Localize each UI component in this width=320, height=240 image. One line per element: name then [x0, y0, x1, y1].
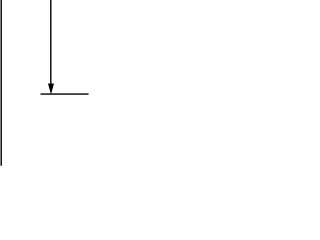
wire W2 (center vertical arrow shaft) [50, 0, 52, 86]
arrowhead (downward arrow on W2) [48, 84, 53, 94]
wire W1 (left vertical wire segment) [0, 0, 2, 166]
wire W3 (horizontal node bar) [41, 93, 89, 95]
